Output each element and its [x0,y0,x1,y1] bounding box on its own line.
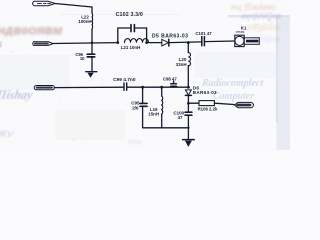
label C100 47 [173,110,184,120]
bleed-through text (reverse side of page) [230,0,277,13]
capacitor C99 4.7n0 (series) [124,83,127,90]
ground rail (bottom) [143,127,189,129]
diode D5 BAR63-03 [162,39,169,46]
wire: X3 to C99 [54,86,123,88]
schematic layer [0,0,290,150]
wire: node B to D5 [147,42,162,44]
paper background washes and bleed-through text layer [0,0,290,150]
inductor L21 10nH (in line) [125,39,149,43]
junction at rail/ground [187,127,189,129]
wire: C99 to node D [127,86,188,88]
capacitor C101 47 (series) [202,37,205,46]
label C95 2/6 [131,101,140,111]
diode D6 BAR63-03 (vertical) [185,90,191,111]
label L22 100nH [78,14,91,24]
capacitor C100 47 (D6 to rail) [185,112,192,128]
label R106 2.2k [198,106,218,111]
connector X4 (bottom-right output) [235,102,254,107]
resistor R106 2.2k [199,101,214,106]
wire: R106 to connector X4 [214,103,234,104]
label D5 BAR63-03 [152,33,188,39]
junction node D [141,86,144,89]
capacitor C95 2/6 (node D to rail) [140,87,147,128]
inductor L22 100nH [91,7,94,43]
connector X3 (bottom-left) [34,86,54,90]
wire: row 2 from X2 to node A [53,42,118,45]
label C98 47 [163,76,177,81]
label K1 [236,26,247,34]
node A junction [116,41,119,44]
wire: C101 to K1 [205,40,235,43]
faint paper washes [0,55,70,90]
junction node C (L20 tap) [187,41,190,44]
label C102 3.3/0 [116,12,143,18]
label D6 BAR63-03 [193,85,217,94]
wire: connector X1 to L22 top [55,4,92,8]
wire: node G to R106 [188,102,199,104]
label L21 10nH [121,45,141,50]
label C96 10 [75,52,85,61]
label C101 47 [195,31,212,36]
capacitor C96 10 (to ground) [87,43,94,72]
ground (under C96) [86,72,97,77]
junction node F (D6 tap) [187,86,190,89]
label C99 4.7n0 [113,77,136,83]
junction node G (R106 tap) [187,102,190,105]
antenna jack K1 [235,35,244,46]
wire: D5 to C101 [170,41,202,44]
inductor L20 33nH (tap to lower section) [188,43,190,88]
ground (bottom, under C100) [183,128,195,146]
node B junction [145,41,148,44]
right page-edge band [277,16,291,150]
connector X1 (top-left input) [33,1,56,5]
label L19 15nH [148,107,159,117]
capacitor C102 3.3/0 (parallel branch) [118,25,147,43]
label L20 33nH [176,57,187,67]
capacitor C98 47 (stub above wire) [171,81,177,87]
plug into K1 [244,38,259,45]
inductor L19 15nH (node E to rail) [162,87,163,128]
junction node E (L19 tap) [160,86,163,89]
junction at L22/C96 [91,41,94,44]
connector X2 (row 2 input) [33,42,53,46]
